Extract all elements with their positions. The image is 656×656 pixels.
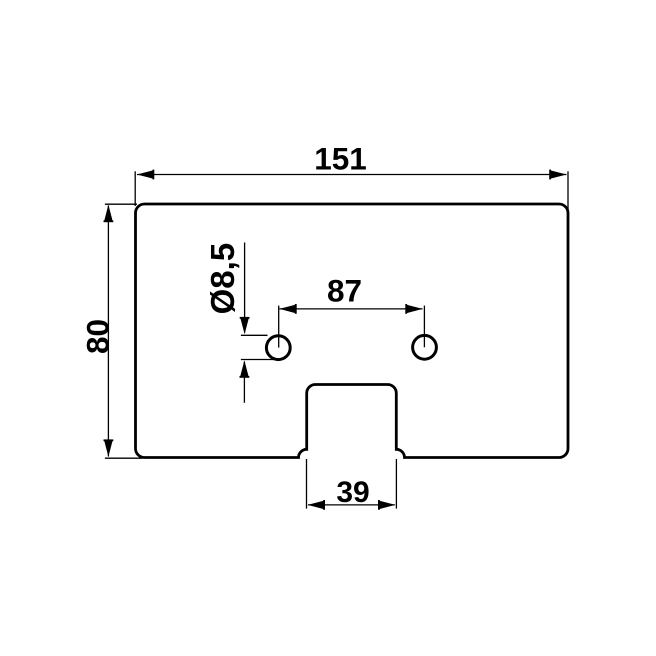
dim Ø8,5: lower dimension line with up arrowhead: [240, 360, 250, 402]
dim Ø8,5: upper dimension line with down arrowhead: [240, 243, 250, 335]
dim 39: extension line right: [395, 459, 397, 509]
dim 39: value label: [336, 476, 369, 509]
dim Ø8,5: bottom tangent extension line: [241, 359, 277, 361]
dim 80: extension line bottom: [105, 457, 142, 459]
hole H2 (right, Ø8.5): [413, 335, 437, 359]
dim 39: left arrowhead: [308, 500, 325, 510]
dim 87: dimension line: [280, 308, 423, 310]
dim 151: extension line left: [134, 171, 136, 206]
dim 87: left arrowhead: [279, 304, 296, 314]
dim 151: dimension line: [137, 174, 567, 176]
dim Ø8,5: top tangent extension line: [241, 334, 268, 336]
dim 87: right arrowhead: [406, 304, 423, 314]
dim 39: dimension line: [308, 504, 395, 506]
dim Ø8,5: value label (rotated): [204, 243, 241, 315]
dim 80: extension line top: [105, 203, 137, 205]
dim 80: top arrowhead: [104, 205, 114, 222]
hole H1 (left, Ø8.5): [266, 336, 290, 360]
dim 151: right arrowhead: [550, 170, 567, 180]
dim 80: dimension line: [107, 206, 109, 457]
svg-text:80: 80: [79, 319, 115, 354]
dim 151: extension line right: [567, 171, 569, 209]
svg-text:Ø8,5: Ø8,5: [204, 243, 241, 315]
dim 87: value label: [327, 272, 362, 308]
dim 151: value label: [314, 141, 367, 177]
dim 151: left arrowhead: [137, 170, 154, 180]
dim 39: right arrowhead: [379, 500, 396, 510]
dim 39: extension line left: [306, 459, 308, 509]
dim 87: extension line right (to hole H2 center): [423, 306, 425, 348]
svg-text:87: 87: [327, 272, 362, 308]
dim 80: value label (rotated): [79, 319, 115, 354]
svg-text:39: 39: [336, 476, 369, 509]
dim 87: extension line left (to hole H1 center): [278, 306, 280, 348]
svg-text:151: 151: [314, 141, 367, 177]
plate outline with bottom notch: [136, 204, 569, 458]
dim 80: bottom arrowhead: [104, 440, 114, 457]
